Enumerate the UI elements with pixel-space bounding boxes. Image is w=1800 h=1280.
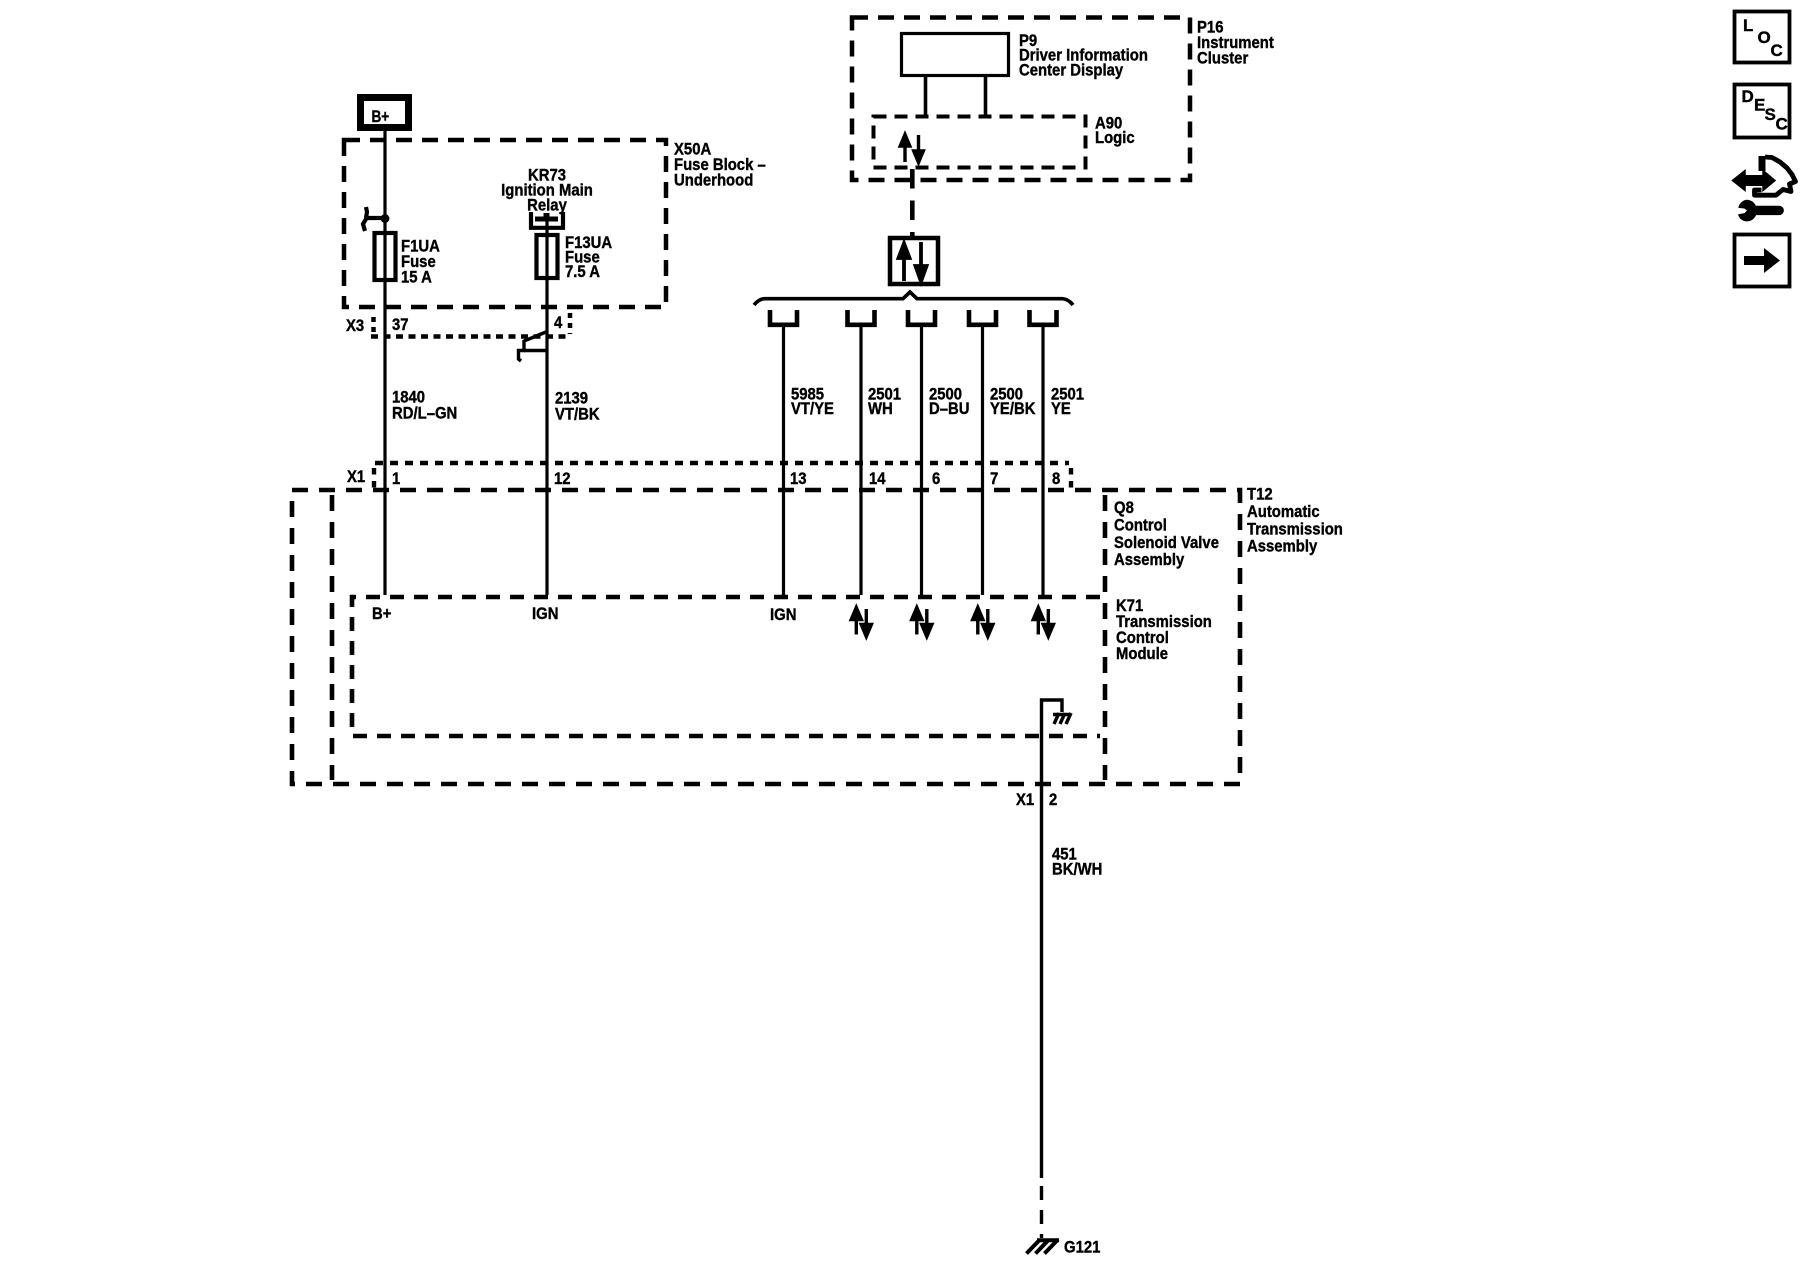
pin terminal U 6: [908, 310, 935, 325]
svg-text:X1: X1: [347, 468, 365, 486]
svg-text:B+: B+: [372, 108, 390, 127]
A90 serial data down arrow: [914, 135, 924, 163]
connector box up arrow: [899, 244, 910, 282]
svg-text:X1: X1: [1016, 791, 1034, 809]
svg-text:14: 14: [869, 470, 886, 488]
X1 row left tick: [372, 468, 376, 490]
B+ power feed box: [361, 98, 409, 128]
connector X3 row: label X3, pins 37 and 4: [346, 313, 571, 338]
LOC nav box: [1735, 12, 1790, 63]
wire stub: P9 to A90 right: [984, 77, 988, 115]
A90 serial data up arrow: [900, 135, 910, 163]
dashed serial data wire from A90 to connector box: [910, 169, 915, 236]
pin terminal U 13: [770, 310, 797, 325]
connector X1 row dotted line: [375, 461, 1069, 466]
wire stub: P9 to A90 left: [924, 77, 928, 115]
T12 Automatic Transmission Assembly dashed box: [292, 490, 1240, 784]
svg-text:C: C: [1771, 41, 1783, 60]
wire: relay through F13UA fuse to K71 IGN pin: [545, 221, 548, 595]
K71 internal chassis ground hatch: [1053, 713, 1071, 724]
fuse F1UA 15A: [375, 233, 396, 280]
wire 5985 VT/YE to K71 IGN: [782, 327, 785, 595]
svg-text:1: 1: [392, 470, 400, 488]
svg-text:G121: G121: [1064, 1239, 1100, 1257]
K71 internal ground jog wire: [1042, 700, 1063, 785]
serial data arrows pair at pin 8: [1033, 608, 1053, 637]
svg-text:O: O: [1758, 28, 1771, 47]
svg-text:X3: X3: [346, 317, 364, 335]
pin terminal U 14: [848, 310, 875, 325]
ground wire 451 BK/WH: [1040, 785, 1043, 1178]
clip/takeout symbol on IGN wire below pin 4: [519, 332, 547, 361]
svg-text:7: 7: [990, 470, 998, 488]
relay KR73 contact symbol: [531, 212, 563, 228]
dashed tail of ground wire: [1040, 1186, 1043, 1238]
serial data arrows pair at pin 6: [912, 608, 932, 637]
fuse F13UA 7.5A: [537, 235, 558, 278]
svg-text:4: 4: [554, 314, 562, 332]
pin terminal U 7: [969, 310, 996, 325]
wire 2501 WH: [859, 327, 862, 595]
svg-text:IGN: IGN: [770, 606, 796, 624]
ground G121 symbol: [1027, 1240, 1060, 1254]
svg-text:6: 6: [932, 470, 940, 488]
vehicle data nav icon: double arrow: [1733, 171, 1776, 191]
forward nav arrow box: [1735, 235, 1790, 287]
serial data connector box: [890, 238, 938, 284]
pin terminal U 8: [1030, 310, 1057, 325]
svg-text:D: D: [1742, 87, 1754, 106]
P9 Driver Information Center Display box: [902, 34, 1009, 76]
wire 2500 YE/BK: [981, 327, 984, 595]
svg-text:B+: B+: [372, 605, 391, 623]
fuse block X50A dashed outline: [344, 140, 666, 307]
wire 2501 YE: [1041, 327, 1044, 595]
DESC nav box: [1735, 85, 1790, 138]
serial data arrows pair at pin 7: [973, 608, 993, 637]
serial data arrows pair at pin 14: [851, 608, 871, 637]
Q8 Control Solenoid Valve Assembly dashed box (left and right edges): [330, 495, 335, 780]
instrument cluster P16 dashed box: [852, 18, 1190, 181]
wire 2500 D-BU: [920, 327, 923, 595]
connector box down arrow: [916, 242, 927, 282]
svg-text:37: 37: [392, 316, 409, 334]
svg-text:2: 2: [1049, 791, 1057, 809]
wire: B+ feed down through F1UA fuse to K71 B+ pin: [383, 131, 386, 595]
vehicle data nav icon: wrench: [1738, 200, 1779, 222]
svg-text:12: 12: [554, 470, 571, 488]
svg-text:8: 8: [1052, 470, 1060, 488]
svg-text:S: S: [1765, 105, 1776, 124]
svg-text:C: C: [1776, 115, 1788, 134]
svg-text:L: L: [1743, 16, 1753, 35]
svg-text:13: 13: [790, 470, 807, 488]
svg-text:IGN: IGN: [532, 605, 558, 623]
K71 Transmission Control Module dashed box: [352, 597, 1100, 736]
A90 Logic dashed box: [874, 117, 1086, 168]
bus brace over pin group: [754, 292, 1073, 305]
clip/takeout symbol on B+ wire: [363, 207, 389, 231]
X1 row right tick: [1069, 468, 1073, 490]
vehicle data nav icon: vehicle outline: [1755, 156, 1796, 195]
